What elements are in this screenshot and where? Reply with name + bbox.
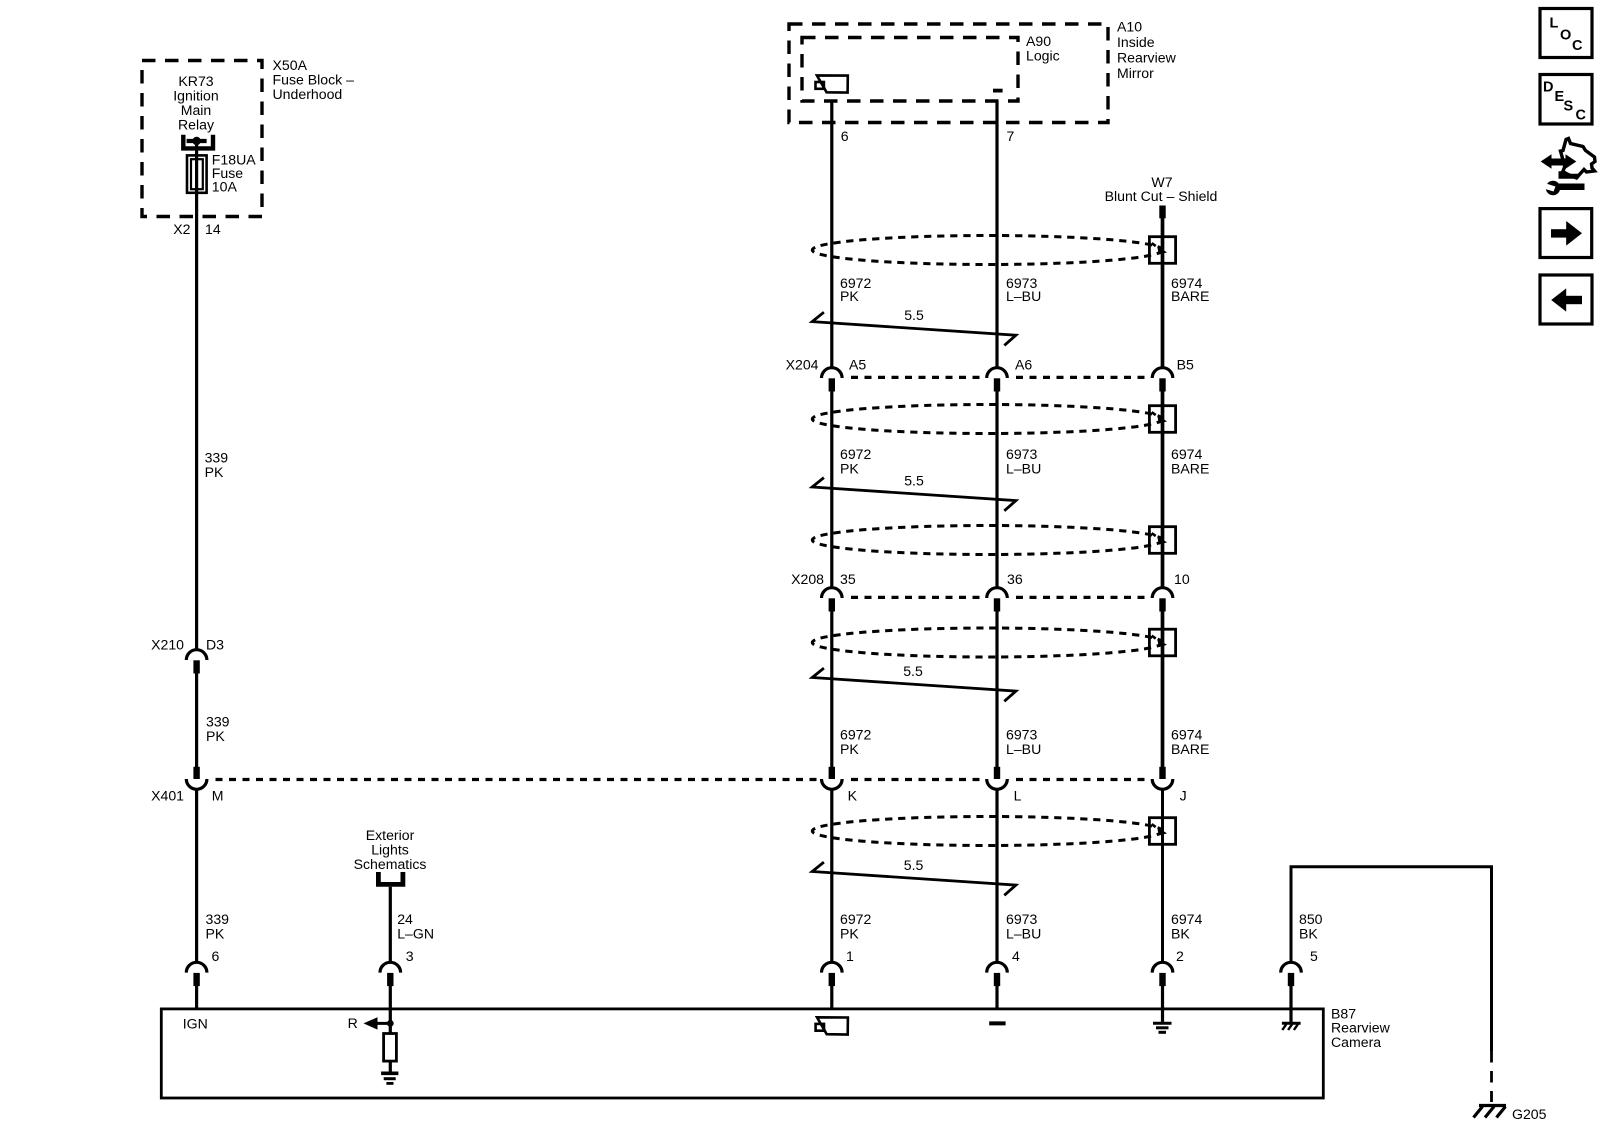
- label 6972 PK s2: [840, 446, 872, 477]
- label pin 3: [406, 948, 414, 964]
- icon service wrench: [1544, 181, 1585, 195]
- camera icon in B87: [816, 1017, 848, 1034]
- shield ellipse 2: [812, 405, 1162, 434]
- icon service tail bar: [1561, 171, 1578, 176]
- A90 logic dashed box: [802, 38, 1018, 102]
- label B5: [1177, 357, 1194, 373]
- wire 6974 shield section 3: [1161, 610, 1165, 767]
- icon service double arrow: [1541, 154, 1577, 169]
- blunt cut terminal W7: [1159, 206, 1165, 219]
- svg-text:A10: A10: [1117, 19, 1142, 35]
- label L: [1014, 788, 1022, 804]
- wire 24 L-GN: [389, 887, 392, 963]
- icon DESC box: [1540, 75, 1592, 125]
- svg-text:7: 7: [1007, 128, 1015, 144]
- svg-text:L–BU: L–BU: [1006, 741, 1041, 757]
- label 6973 L-BU s2: [1006, 446, 1041, 477]
- label A6: [1015, 357, 1032, 373]
- svg-text:D3: D3: [206, 637, 224, 653]
- label X50A Fuse Block Underhood: [273, 57, 355, 102]
- svg-text:IGN: IGN: [183, 1016, 208, 1032]
- svg-text:5: 5: [1310, 948, 1318, 964]
- svg-text:X210: X210: [151, 637, 184, 653]
- svg-text:Mirror: Mirror: [1117, 65, 1154, 81]
- icon arrow right box: [1540, 209, 1592, 258]
- label G205: [1512, 1106, 1547, 1122]
- svg-text:G205: G205: [1512, 1106, 1547, 1122]
- wire 6973 L-BU section 2: [995, 390, 998, 587]
- label B87 Rearview Camera: [1331, 1005, 1391, 1050]
- svg-text:PK: PK: [206, 728, 225, 744]
- label 339 PK middle: [206, 714, 230, 745]
- off-page connector symbol Exterior Lights: [378, 872, 403, 884]
- label pin 4: [1012, 948, 1020, 964]
- fuse block X50A dashed box: [142, 61, 262, 217]
- svg-text:PK: PK: [206, 925, 225, 941]
- svg-text:Rearview: Rearview: [1117, 50, 1177, 66]
- svg-text:5.5: 5.5: [904, 857, 924, 873]
- svg-text:X204: X204: [786, 357, 819, 373]
- svg-text:B5: B5: [1177, 357, 1194, 373]
- label 35: [840, 571, 856, 587]
- B87 rearview camera box: [161, 1009, 1323, 1098]
- label K: [848, 788, 858, 804]
- label 6974 BK s4: [1171, 911, 1203, 941]
- label R: [348, 1015, 358, 1031]
- connector X208 10: [1152, 588, 1173, 612]
- shield ellipse 4: [812, 628, 1162, 657]
- label 36: [1007, 571, 1023, 587]
- connector X401 J: [1152, 767, 1173, 790]
- svg-text:L: L: [1014, 788, 1022, 804]
- label M: [212, 788, 224, 804]
- A10 inside rearview mirror dashed box: [789, 24, 1108, 123]
- svg-text:36: 36: [1007, 571, 1023, 587]
- svg-text:14: 14: [205, 221, 221, 237]
- twisted pair marker 5.5 s4: [812, 862, 1016, 895]
- svg-text:6: 6: [841, 128, 849, 144]
- svg-text:BARE: BARE: [1171, 288, 1209, 304]
- label J: [1180, 788, 1187, 804]
- shield termination box 4: [1149, 629, 1175, 656]
- connector B87 pin 3: [380, 962, 401, 1010]
- wire 339 PK from relay KR73 through fuse to X210: [195, 141, 198, 649]
- wire 6974 shield section 4: [1161, 790, 1164, 962]
- svg-text:BK: BK: [1299, 925, 1318, 941]
- label 6973 L-BU s4: [1006, 911, 1041, 941]
- ground symbol pin 2 B87: [1153, 1010, 1172, 1032]
- connector X204 A6: [987, 368, 1008, 392]
- wire 6972 PK section 1: [830, 101, 833, 367]
- twisted pair marker 5.5 s2: [812, 478, 1016, 511]
- chassis ground pin 5 B87: [1282, 1010, 1301, 1030]
- connector B87 pin 4: [987, 962, 1008, 1010]
- label 6972 PK s4: [840, 911, 872, 941]
- label 24 L-GN: [397, 911, 434, 941]
- svg-text:PK: PK: [840, 461, 859, 477]
- wire 850 BK to G205: [1291, 867, 1492, 1051]
- svg-text:S: S: [1564, 99, 1574, 115]
- svg-text:C: C: [1576, 108, 1587, 124]
- label pin 6 of A90: [841, 128, 849, 144]
- connector X208 36: [987, 588, 1008, 612]
- svg-text:R: R: [348, 1015, 358, 1031]
- icon arrow left box: [1540, 275, 1592, 324]
- svg-text:X208: X208: [791, 571, 824, 587]
- connector X401 L: [987, 767, 1008, 790]
- wire 6972 PK section 4: [830, 790, 833, 962]
- svg-text:Underhood: Underhood: [273, 86, 343, 102]
- svg-text:BARE: BARE: [1171, 741, 1209, 757]
- label pin 5: [1310, 948, 1318, 964]
- label F18UA Fuse 10A: [212, 152, 256, 195]
- connector X204 B5: [1152, 368, 1173, 392]
- connector X401 M: [186, 767, 207, 790]
- chassis ground G205: [1474, 1106, 1507, 1118]
- svg-text:K: K: [848, 788, 858, 804]
- svg-text:PK: PK: [840, 925, 859, 941]
- label pin 2: [1176, 948, 1184, 964]
- svg-text:10A: 10A: [212, 179, 238, 195]
- svg-text:BK: BK: [1171, 925, 1190, 941]
- svg-text:Inside: Inside: [1117, 34, 1155, 50]
- label pin 1: [846, 948, 854, 964]
- svg-text:3: 3: [406, 948, 414, 964]
- shield termination box 5: [1149, 818, 1175, 845]
- label 6973 L-BU s3: [1006, 727, 1041, 758]
- twisted pair marker 5.5 s1: [812, 312, 1016, 345]
- icon service outline shape: [1561, 139, 1596, 179]
- camera icon in A90: [816, 75, 848, 92]
- label 6974 BARE s2: [1171, 446, 1209, 477]
- relay KR73 contact symbol: [183, 135, 213, 149]
- wire 339 PK from X210 to X401: [195, 672, 198, 767]
- svg-text:Camera: Camera: [1331, 1034, 1381, 1050]
- label 5.5 s2: [904, 473, 924, 489]
- label 6973 L-BU s1: [1006, 275, 1041, 304]
- label 5.5 s3: [903, 663, 923, 679]
- shield ellipse 1: [812, 236, 1162, 265]
- dashed bus X204: [851, 376, 1149, 379]
- wire 6972 PK section 2: [830, 390, 833, 587]
- internal ground under R: [381, 1073, 398, 1083]
- svg-text:M: M: [212, 788, 224, 804]
- connector X210 D3: [186, 650, 207, 674]
- dashed wire to G205: [1490, 1051, 1493, 1102]
- label 6974 BARE s3: [1171, 727, 1209, 758]
- label Exterior Lights Schematics: [354, 827, 427, 872]
- connector B87 pin 6: [186, 962, 207, 1010]
- label 850 BK: [1299, 911, 1323, 941]
- label pin 7 of A90: [1007, 128, 1015, 144]
- label 10: [1174, 571, 1190, 587]
- svg-text:5.5: 5.5: [903, 663, 923, 679]
- wire 6974 shield section 2: [1161, 390, 1165, 587]
- label pin 6: [212, 948, 220, 964]
- fuse F18UA symbol: [187, 155, 207, 192]
- svg-text:D: D: [1543, 80, 1553, 96]
- label A10 Inside Rearview Mirror: [1117, 19, 1177, 82]
- svg-text:C: C: [1572, 38, 1583, 54]
- label W7 Blunt Cut Shield: [1105, 174, 1218, 204]
- label X208: [791, 571, 824, 587]
- svg-text:Blunt Cut – Shield: Blunt Cut – Shield: [1105, 188, 1218, 204]
- svg-text:BARE: BARE: [1171, 461, 1209, 477]
- label D3: [206, 637, 224, 653]
- wire 6973 L-BU section 3: [995, 610, 998, 767]
- svg-text:PK: PK: [840, 288, 859, 304]
- connector X2 pin 14 labels: [173, 221, 221, 237]
- svg-text:L–GN: L–GN: [397, 925, 434, 941]
- svg-text:L: L: [1550, 16, 1559, 32]
- svg-text:35: 35: [840, 571, 856, 587]
- svg-text:Logic: Logic: [1026, 48, 1060, 64]
- connector X208 35: [822, 588, 843, 612]
- label 6974 BARE s1: [1171, 275, 1209, 304]
- svg-text:4: 4: [1012, 948, 1020, 964]
- svg-text:A6: A6: [1015, 357, 1032, 373]
- connector B87 pin 1: [822, 962, 843, 1010]
- svg-text:10: 10: [1174, 571, 1190, 587]
- svg-text:X401: X401: [151, 788, 184, 804]
- label X204: [786, 357, 819, 373]
- connector B87 pin 5: [1281, 962, 1302, 1010]
- shield termination box 2: [1149, 406, 1175, 433]
- svg-text:5.5: 5.5: [904, 307, 924, 323]
- svg-text:X2: X2: [173, 221, 190, 237]
- svg-text:L–BU: L–BU: [1006, 461, 1041, 477]
- svg-text:Schematics: Schematics: [354, 856, 427, 872]
- reverse input arrow R: [364, 1017, 394, 1029]
- svg-text:J: J: [1180, 788, 1187, 804]
- label KR73 Ignition Main Relay: [173, 73, 218, 133]
- svg-text:L–BU: L–BU: [1006, 288, 1041, 304]
- icon LOC box: [1540, 9, 1592, 58]
- connector X401 K: [822, 767, 843, 790]
- shield termination box 3: [1149, 527, 1175, 554]
- wire 6974 shield section 1: [1161, 218, 1165, 367]
- label 339 PK lower: [206, 911, 230, 941]
- dashed bus X401: [216, 778, 1150, 781]
- svg-text:5.5: 5.5: [904, 473, 924, 489]
- label X210: [151, 637, 184, 653]
- connector X204 A5: [822, 368, 843, 392]
- svg-text:PK: PK: [205, 464, 224, 480]
- svg-text:Relay: Relay: [178, 117, 215, 133]
- svg-text:A5: A5: [849, 357, 866, 373]
- shield ellipse 3: [812, 526, 1162, 555]
- label 5.5 s1: [904, 307, 924, 323]
- internal resistor under R: [384, 1009, 397, 1072]
- twisted pair marker 5.5 s3: [812, 668, 1016, 701]
- svg-text:PK: PK: [840, 741, 859, 757]
- minus pin in A90: [993, 89, 1003, 93]
- svg-text:L–BU: L–BU: [1006, 925, 1041, 941]
- connector B87 pin 2: [1152, 962, 1173, 1010]
- svg-text:O: O: [1560, 28, 1571, 44]
- svg-text:1: 1: [846, 948, 854, 964]
- label 5.5 s4: [904, 857, 924, 873]
- label A5: [849, 357, 866, 373]
- svg-text:6: 6: [212, 948, 220, 964]
- wire 6973 L-BU section 1: [995, 101, 998, 367]
- label IGN: [183, 1016, 208, 1032]
- label A90 Logic: [1026, 33, 1060, 64]
- label 339 PK upper: [205, 450, 229, 481]
- wire 6972 PK section 3: [830, 610, 833, 767]
- shield termination box 1: [1149, 237, 1175, 264]
- label X401: [151, 788, 184, 804]
- wire 6973 L-BU section 4: [995, 790, 998, 962]
- shield ellipse 5: [812, 817, 1162, 846]
- label 6972 PK s3: [840, 727, 872, 758]
- label 6972 PK s1: [840, 275, 872, 304]
- minus pin in B87: [989, 1021, 1005, 1025]
- svg-text:2: 2: [1176, 948, 1184, 964]
- dashed bus X208: [851, 596, 1149, 599]
- wire 339 PK from X401 to camera connector: [195, 790, 198, 962]
